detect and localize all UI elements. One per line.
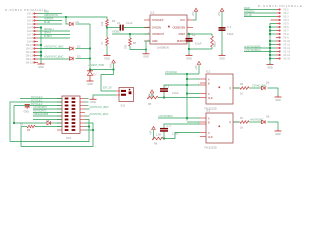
svg-text:DCYCLE.2: DCYCLE.2	[31, 102, 43, 106]
svg-text:D3: D3	[77, 55, 81, 59]
svg-text:ODDEVEN/D8: ODDEVEN/D8	[33, 112, 49, 116]
svg-text:+5V: +5V	[191, 12, 195, 17]
svg-text:C 3: C 3	[165, 84, 170, 88]
svg-text:BLUE: BLUE	[44, 20, 51, 24]
svg-text:DCYCLE.0: DCYCLE.0	[31, 95, 43, 99]
svg-text:Q: Q	[229, 88, 231, 90]
svg-text:+5V/VSYNC_/BAC: +5V/VSYNC_/BAC	[44, 55, 64, 59]
svg-text:GND: GND	[87, 83, 93, 86]
svg-text:D2: D2	[77, 45, 81, 49]
svg-text:CSYNC/AC: CSYNC/AC	[165, 70, 177, 74]
svg-text:GND: GND	[152, 39, 158, 43]
svg-text:GND: GND	[38, 66, 44, 69]
svg-text:C2: C2	[192, 33, 196, 37]
svg-text:+VSYNC/BAC: +VSYNC/BAC	[244, 48, 261, 52]
svg-text:SYNCOUT: SYNCOUT	[152, 18, 164, 22]
svg-text:10k: 10k	[100, 21, 104, 26]
svg-text:R7: R7	[240, 116, 244, 120]
svg-text:GND: GND	[186, 57, 192, 60]
svg-text:+5V: +5V	[149, 130, 153, 135]
svg-text:+5V/CSYNC_/BAC: +5V/CSYNC_/BAC	[89, 105, 109, 109]
svg-text:GND: GND	[104, 57, 110, 60]
svg-text:IC2: IC2	[206, 70, 211, 74]
svg-text:+5V/EXT_PWR: +5V/EXT_PWR	[88, 63, 104, 67]
svg-text:+5V: +5V	[109, 63, 113, 68]
svg-text:IC3: IC3	[206, 109, 211, 113]
svg-text:D6: D6	[266, 115, 270, 119]
svg-text:RSET: RSET	[179, 32, 186, 36]
svg-text:+5V: +5V	[194, 65, 198, 70]
svg-text:C 4: C 4	[167, 124, 172, 128]
svg-text:GND: GND	[219, 57, 225, 60]
svg-text:+5V/CSYNC_/BAC: +5V/CSYNC_/BAC	[44, 45, 64, 49]
svg-text:IC1: IC1	[150, 11, 155, 15]
svg-text:SV1: SV1	[66, 136, 72, 140]
svg-text:LM1881N: LM1881N	[157, 46, 169, 50]
svg-text:D-SUB15-HD(MALE)A: D-SUB15-HD(MALE)A	[5, 8, 47, 12]
svg-text:1K: 1K	[240, 92, 243, 96]
svg-text:6.8uF: 6.8uF	[227, 32, 234, 36]
svg-text:330: 330	[125, 44, 128, 49]
svg-text:BLUE: BLUE	[244, 13, 252, 17]
svg-text:VIDEO: VIDEO	[112, 30, 122, 34]
svg-text:1K: 1K	[240, 126, 243, 130]
svg-text:RED: RED	[44, 10, 49, 14]
svg-text:2.2uF: 2.2uF	[172, 131, 179, 135]
svg-text:GND: GND	[143, 56, 149, 59]
svg-text:GND: GND	[275, 133, 281, 136]
svg-text:1.0K: 1.0K	[156, 133, 162, 137]
svg-text:ID-BIT2: ID-BIT2	[44, 34, 52, 38]
svg-text:SENSE.1: SENSE.1	[44, 27, 54, 31]
svg-text:1.0K: 1.0K	[149, 93, 155, 97]
svg-text:CSYNC/INT0: CSYNC/INT0	[33, 105, 47, 109]
svg-text:SJ1: SJ1	[121, 103, 126, 107]
svg-text:GND: GND	[275, 99, 281, 102]
svg-text:C 2: C 2	[227, 25, 232, 29]
svg-text:ODD/EVEN: ODD/EVEN	[173, 25, 186, 29]
svg-text:DCYCLE.1: DCYCLE.1	[31, 98, 43, 102]
svg-text:GND: GND	[90, 101, 96, 104]
svg-text:SDA.A: SDA.A	[44, 31, 51, 35]
svg-text:D5: D5	[266, 81, 270, 85]
svg-text:D-SUB15-HD15MALE: D-SUB15-HD15MALE	[258, 4, 302, 8]
svg-text:1K: 1K	[20, 123, 23, 126]
svg-text:D4: D4	[46, 119, 50, 123]
svg-text:GRN/CSYNC: GRN/CSYNC	[44, 13, 58, 17]
svg-text:VS/HSOUT: VS/HSOUT	[152, 32, 165, 36]
svg-text:+5V: +5V	[217, 12, 221, 17]
svg-text:D1: D1	[76, 20, 80, 24]
svg-text:VCC: VCC	[180, 18, 185, 22]
svg-text:SYNCIN: SYNCIN	[152, 25, 161, 29]
svg-text:681k: 681k	[213, 41, 217, 47]
svg-text:6.2uF: 6.2uF	[195, 42, 202, 46]
svg-text:0.1uF: 0.1uF	[126, 21, 133, 25]
svg-text:1M-15: 1M-15	[26, 62, 34, 65]
svg-text:VSYNC/INT1: VSYNC/INT1	[33, 109, 47, 113]
svg-text:HORIZ/A: HORIZ/A	[44, 17, 54, 21]
svg-text:X3-15: X3-15	[283, 58, 290, 61]
svg-text:R4: R4	[240, 82, 244, 86]
svg-text:Q: Q	[229, 122, 231, 124]
svg-text:CLR: CLR	[208, 137, 213, 139]
svg-text:+5V/VSYNC_/BAC: +5V/VSYNC_/BAC	[89, 112, 109, 116]
svg-text:GND: GND	[24, 111, 30, 114]
svg-text:C1: C1	[117, 21, 121, 25]
svg-text:2.2uF: 2.2uF	[172, 91, 179, 95]
svg-text:EXT_5V: EXT_5V	[103, 85, 112, 89]
svg-text:GND: GND	[267, 66, 273, 69]
svg-text:BURST: BURST	[177, 39, 186, 43]
svg-text:+VSYNC/BAC: +VSYNC/BAC	[158, 114, 173, 118]
svg-text:74LS123D: 74LS123D	[204, 145, 217, 149]
svg-text:R2: R2	[112, 19, 116, 23]
svg-text:CLR: CLR	[208, 98, 213, 100]
